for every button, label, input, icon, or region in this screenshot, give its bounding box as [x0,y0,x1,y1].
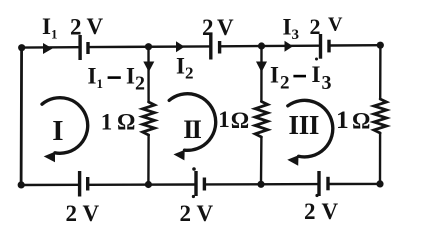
svg-text:I: I [309,110,320,140]
svg-text:2: 2 [70,14,82,39]
current arrow I1 [43,43,53,54]
svg-text:Ω: Ω [352,109,370,134]
wire top segment 3 [221,45,318,48]
loop arrow I [42,98,88,154]
loop arrow III [288,100,333,157]
svg-text:Ω: Ω [117,110,135,135]
arrowhead loop II [174,150,185,161]
svg-text:I: I [52,115,63,147]
current arrow branch 2 down [143,62,154,73]
resistor R3 1ohm [255,102,268,138]
svg-text:Ω: Ω [231,108,249,133]
current arrow I2 [176,41,185,52]
arrowhead loop I [44,152,55,163]
wire branch 3 upper [260,46,263,102]
resistor R2 1ohm [143,102,155,135]
wire right rail lower [379,133,382,184]
wire top-left segment [22,46,79,49]
node top-right [377,42,384,49]
svg-text:2: 2 [180,201,192,226]
node top junction 3 [258,42,265,49]
scan speck [315,194,318,197]
svg-text:V: V [328,14,343,36]
wire branch 2 lower [147,135,150,185]
loop arrow II [169,94,216,151]
wire top segment 2 [90,45,209,48]
svg-text:V: V [322,199,339,224]
node top junction 2 [145,43,152,50]
svg-text:V: V [197,201,214,226]
wire bottom segment 2 [89,183,194,186]
node bottom-left [18,181,25,188]
wire branch 2 upper [147,47,150,102]
scan speck 2 [192,167,196,171]
node bottom junction 2 [145,181,152,188]
battery top-right 2V [321,34,330,59]
svg-text:I: I [192,115,202,144]
current arrow I3 [285,41,294,52]
svg-text:V: V [83,201,100,226]
wire left rail [20,48,23,185]
wire bottom segment 1 [21,184,78,187]
wire bottom segment 3 [206,183,317,186]
battery top-left 2V [80,35,88,60]
arrowhead loop III [287,155,298,165]
wire right rail upper [379,45,382,99]
scan speck 4 [315,58,318,61]
svg-text:1: 1 [336,105,349,134]
svg-text:I: I [299,110,310,140]
battery bottom-right 2V [319,171,328,196]
svg-text:1: 1 [218,107,230,132]
svg-text:2: 2 [310,14,321,39]
svg-text:V: V [87,14,104,39]
wire bottom segment 4 [330,183,380,186]
node top-left [18,44,25,51]
current arrow branch 3 down [256,62,267,73]
battery bottom-left 2V [80,171,88,197]
battery bottom-middle 2V [196,171,204,196]
wire branch 3 lower [260,137,263,184]
node bottom junction 3 [257,181,264,188]
wire top-right segment [331,44,381,47]
svg-text:2: 2 [66,201,78,226]
battery top-middle 2V [211,35,220,60]
svg-text:2: 2 [202,15,214,40]
svg-text:2: 2 [304,199,316,224]
resistor R4 1ohm [374,99,387,133]
node bottom-right [376,180,383,187]
svg-text:V: V [217,15,234,40]
svg-text:1: 1 [101,109,113,134]
svg-text:I: I [289,110,300,140]
scan speck 3 [192,195,195,198]
